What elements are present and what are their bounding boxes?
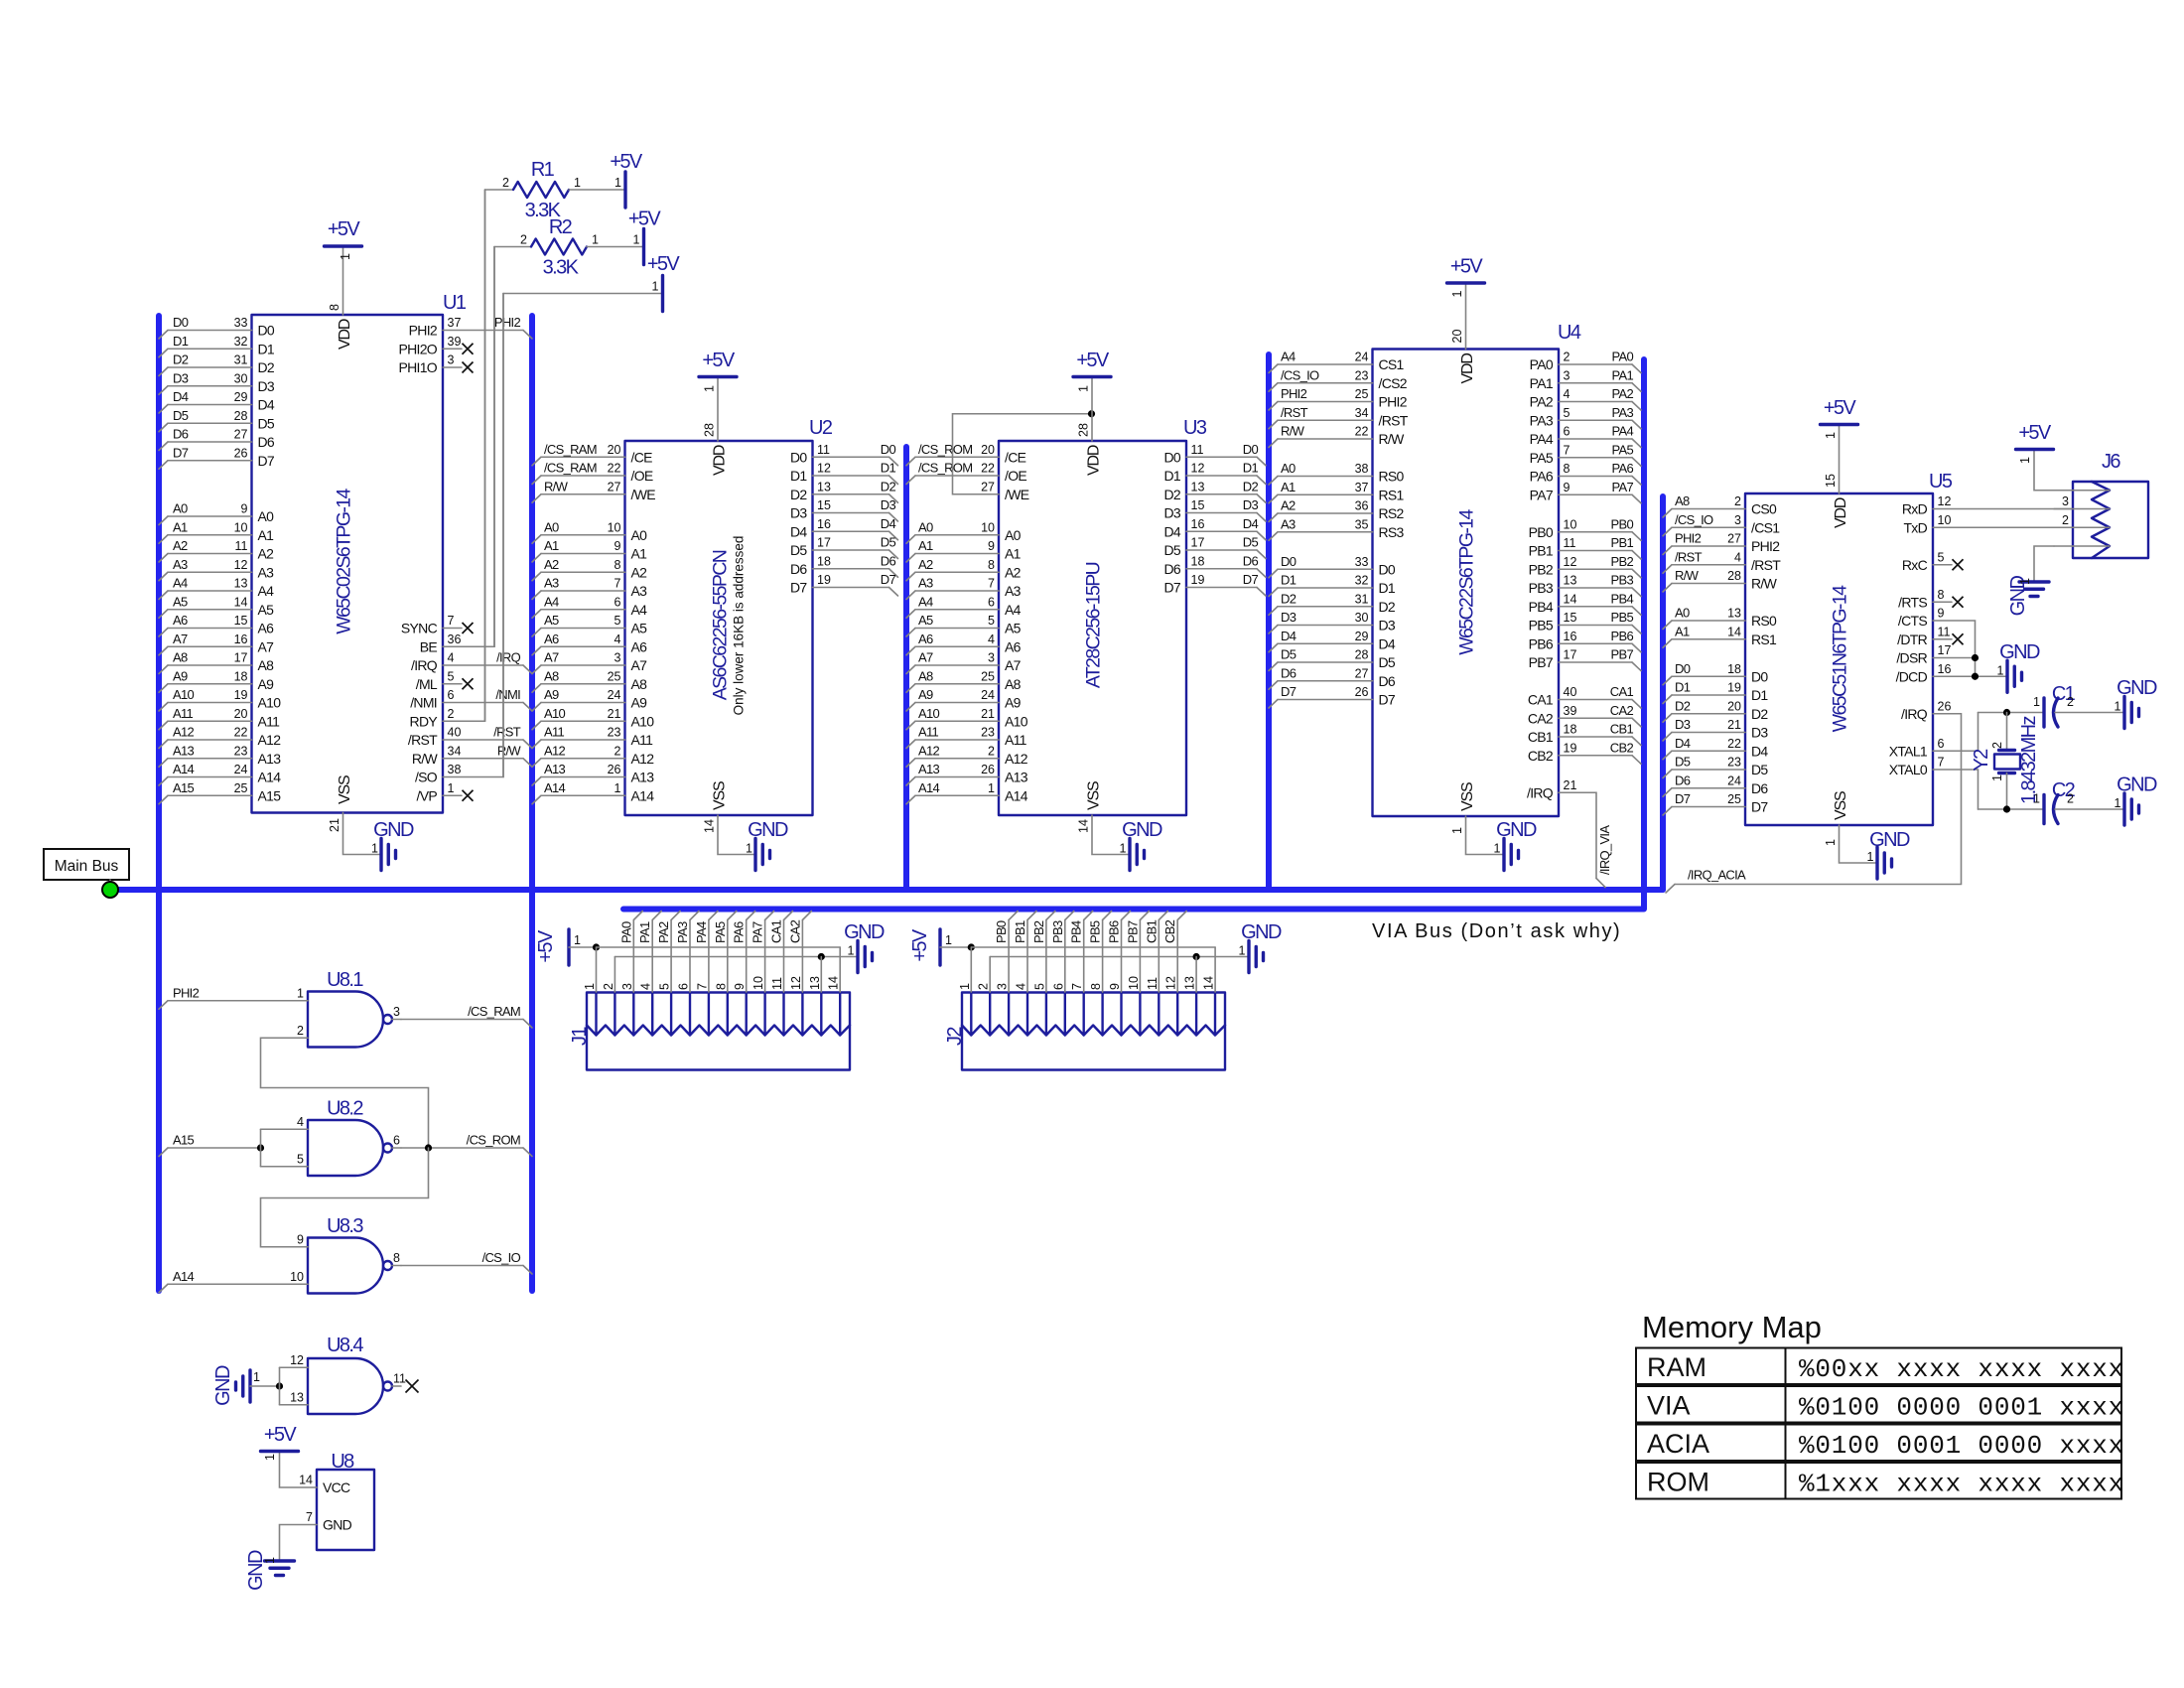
U3 pin 4 A6 wire from bus [906,632,1022,655]
wire J2 pin 5 PB2 from VIA bus [1031,912,1055,993]
U3 pin 16 D4 wire to bus [1164,516,1267,540]
svg-text:D3: D3 [790,505,807,521]
svg-text:A3: A3 [918,576,933,591]
svg-text:U8.3: U8.3 [327,1215,363,1237]
wire U8.1 pin 2 from /CS_ROM [261,1038,429,1148]
svg-text:24: 24 [608,688,621,702]
svg-text:15: 15 [1824,474,1838,488]
memory map row ROM [1636,1463,2124,1499]
svg-text:PB2: PB2 [1031,920,1046,943]
svg-text:A7: A7 [1005,657,1022,673]
svg-text:7: 7 [614,577,621,591]
svg-text:2: 2 [614,744,621,758]
svg-text:PB0: PB0 [994,920,1009,943]
U4 pin 16 PB6 wire to VIA bus [1529,629,1641,652]
svg-text:RAM: RAM [1647,1352,1706,1382]
svg-text:2: 2 [1734,494,1741,508]
svg-text:/CS_ROM: /CS_ROM [918,461,972,476]
svg-text:PB5: PB5 [1611,610,1634,625]
U4 pin 8 PA6 wire to VIA bus [1530,461,1641,485]
svg-text:16: 16 [817,517,831,531]
svg-text:1: 1 [583,983,597,990]
svg-text:+5V: +5V [2018,422,2052,444]
svg-text:U3: U3 [1183,417,1207,439]
svg-text:7: 7 [988,577,995,591]
wire J1 pin 8 PA5 from VIA bus [713,912,737,993]
svg-text:U4: U4 [1558,322,1581,344]
svg-text:A13: A13 [258,751,282,767]
svg-text:PHI2: PHI2 [409,323,438,339]
U5 pin 4 /RST wire from bus [1663,549,1781,573]
svg-text:17: 17 [1938,643,1952,657]
svg-text:2: 2 [2067,695,2074,709]
U1 pin 26 D7 wire from left bus [159,445,275,469]
wire J2 pin 7 PB4 from VIA bus [1069,912,1093,993]
U3 pin 22 /OE wire from bus [906,461,1026,485]
svg-text:PB0: PB0 [1529,524,1554,540]
svg-text:35: 35 [1355,517,1369,531]
svg-text:A15: A15 [173,780,195,795]
svg-text:11: 11 [1564,536,1576,550]
svg-text:/WE: /WE [1005,487,1029,502]
svg-text:VIA Bus (Don’t ask why): VIA Bus (Don’t ask why) [1372,920,1621,942]
U3 pin 27 /WE tied high to VDD [953,410,1096,502]
svg-text:19: 19 [817,573,831,587]
svg-text:D4: D4 [790,523,807,539]
svg-text:D3: D3 [1281,610,1297,625]
svg-text:D3: D3 [881,497,896,512]
svg-text:D0: D0 [790,449,807,465]
svg-text:/RST: /RST [1751,557,1781,573]
svg-text:A5: A5 [918,613,933,628]
svg-text:9: 9 [1938,607,1945,621]
svg-text:27: 27 [234,428,248,442]
svg-text:2: 2 [1990,742,2004,749]
svg-text:/CS1: /CS1 [1751,519,1780,535]
svg-text:1: 1 [1494,842,1501,856]
svg-text:D6: D6 [258,434,275,450]
svg-text:8: 8 [328,304,341,311]
U3 pin 23 A11 wire from bus [906,725,1027,749]
svg-text:/IRQ_ACIA: /IRQ_ACIA [1688,868,1746,883]
U2 pin 22 /OE wire from bus [532,461,653,485]
resistor R2 3.3K pull-up on BE [494,209,661,279]
svg-text:D6: D6 [1751,780,1768,796]
U1 pin 12 A3 wire from left bus [159,557,274,581]
svg-text:%0100 0000 0001 xxxx: %0100 0000 0001 xxxx [1799,1393,2124,1423]
svg-text:18: 18 [234,669,248,683]
svg-text:9: 9 [614,539,621,553]
svg-text:PA1: PA1 [1611,367,1633,382]
wire J1 pin 5 PA2 from VIA bus [656,912,680,993]
svg-text:GND: GND [1241,921,1282,943]
svg-text:PB4: PB4 [1069,920,1084,943]
svg-text:A14: A14 [1005,787,1028,803]
svg-text:PA3: PA3 [1611,405,1633,420]
svg-text:D2: D2 [1751,706,1768,722]
U1 pin 39 PHI2O [398,335,473,357]
+5V symbol tied to /SO [503,253,680,312]
svg-text:D5: D5 [881,535,896,550]
svg-text:A12: A12 [258,732,282,748]
svg-text:/NMI: /NMI [495,687,520,702]
svg-text:A4: A4 [631,602,648,618]
svg-text:CA2: CA2 [1528,710,1554,726]
U5 pin 8 /RTS no-connect [1898,588,1963,611]
memory map row ACIA [1636,1425,2124,1462]
svg-text:6: 6 [448,688,455,702]
svg-text:16: 16 [234,633,248,646]
svg-text:A8: A8 [544,668,559,683]
svg-text:A5: A5 [173,594,188,609]
svg-text:27: 27 [1355,666,1369,680]
svg-text:A0: A0 [173,501,188,516]
svg-text:D3: D3 [1675,717,1691,732]
svg-text:J1: J1 [569,1027,591,1046]
svg-text:17: 17 [1191,536,1205,550]
U2 pin 21 A10 wire from bus [532,706,654,730]
svg-text:A5: A5 [631,621,648,636]
svg-text:A14: A14 [544,780,566,795]
svg-text:20: 20 [981,443,995,457]
svg-text:D2: D2 [1281,591,1297,606]
svg-text:31: 31 [1355,592,1369,606]
svg-text:PHI2O: PHI2O [398,341,437,356]
svg-text:1: 1 [1867,850,1874,864]
svg-text:17: 17 [1564,648,1577,662]
svg-text:PHI2: PHI2 [494,315,521,330]
U4 pin 21 /IRQ wire to main bus, net /IRQ_VIA [1527,778,1612,888]
svg-text:RS3: RS3 [1379,524,1405,540]
svg-text:16: 16 [1938,662,1952,676]
svg-text:9: 9 [1564,481,1570,494]
svg-text:28: 28 [1077,423,1091,437]
svg-text:A9: A9 [258,676,275,692]
svg-text:23: 23 [981,726,995,740]
svg-text:RDY: RDY [410,713,439,729]
svg-text:11: 11 [235,539,248,553]
svg-text:12: 12 [817,462,831,476]
svg-text:/NMI: /NMI [410,695,437,711]
svg-text:GND: GND [844,921,885,943]
svg-text:+5V: +5V [610,151,643,173]
svg-text:22: 22 [981,462,995,476]
svg-text:9: 9 [297,1232,304,1246]
svg-text:/CS_ROM: /CS_ROM [918,442,972,457]
svg-text:21: 21 [608,707,621,721]
svg-text:BE: BE [420,638,438,654]
svg-text:7: 7 [1070,983,1084,990]
U5 pin 22 D4 wire from bus [1663,736,1768,760]
svg-text:A15: A15 [258,787,282,803]
svg-text:2: 2 [602,983,615,990]
svg-text:A12: A12 [918,743,940,758]
svg-text:22: 22 [1355,425,1369,439]
svg-text:26: 26 [608,763,621,776]
svg-text:13: 13 [234,577,248,591]
svg-text:18: 18 [1564,723,1577,737]
svg-text:A3: A3 [173,557,188,572]
svg-text:20: 20 [1450,330,1464,344]
svg-text:25: 25 [608,669,621,683]
wire J2 pin 10 PB7 from VIA bus [1125,912,1149,993]
U1 pin 24 A14 wire from left bus [159,762,281,785]
svg-text:27: 27 [981,480,995,493]
svg-text:7: 7 [306,1510,313,1524]
svg-text:1: 1 [746,842,752,856]
svg-text:6: 6 [1564,425,1570,439]
svg-text:26: 26 [981,763,995,776]
svg-text:4: 4 [448,651,455,665]
svg-text:8: 8 [988,558,995,572]
svg-text:A7: A7 [544,650,559,665]
U5 pin 27 PHI2 wire from bus [1663,531,1780,555]
wire PHI2 to U8.1 pin 1 [159,985,289,1009]
U1 pin 25 A15 wire from left bus [159,780,281,804]
svg-text:13: 13 [1727,607,1741,621]
svg-text:20: 20 [234,707,248,721]
svg-text:1: 1 [2033,695,2040,709]
svg-text:A8: A8 [1675,493,1690,508]
U8 VCC pin 14 wire and +5V symbol [261,1424,318,1487]
svg-text:13: 13 [1564,574,1577,588]
wire J1 pin 3 PA0 from VIA bus [618,912,642,993]
svg-text:14: 14 [703,819,717,833]
svg-text:CB2: CB2 [1162,919,1177,943]
U1 pin 30 D3 wire from left bus [159,370,275,394]
svg-text:A10: A10 [918,706,940,721]
svg-text:19: 19 [1727,681,1741,695]
svg-text:3: 3 [620,983,634,990]
svg-text:A1: A1 [258,527,275,543]
svg-text:PA5: PA5 [1530,450,1554,466]
svg-text:/DSR: /DSR [1896,650,1927,666]
svg-text:Main Bus: Main Bus [55,858,119,875]
U2 pin 17 D5 wire to bus [790,535,898,559]
svg-text:A2: A2 [544,557,559,572]
svg-text:10: 10 [234,520,248,534]
U5 pin 13 RS0 wire from bus [1663,606,1777,630]
svg-text:/RST: /RST [493,725,521,740]
U2 pin 2 A12 wire from bus [532,743,654,767]
svg-text:+5V: +5V [702,350,736,371]
U2 pin 25 A8 wire from bus [532,668,647,692]
svg-text:PA2: PA2 [1530,394,1554,410]
svg-text:D5: D5 [1675,755,1691,770]
U4 pin 30 D3 wire from bus [1269,610,1396,633]
svg-text:A2: A2 [631,564,648,580]
svg-text:D5: D5 [1164,542,1181,558]
svg-text:R1: R1 [531,159,555,181]
svg-text:9: 9 [733,983,747,990]
svg-text:D6: D6 [1281,665,1297,680]
svg-text:/RST: /RST [408,732,438,748]
svg-text:A6: A6 [258,621,275,636]
U5 pin 28 R/W wire from bus [1663,568,1778,592]
svg-text:A9: A9 [544,687,559,702]
svg-text:RS0: RS0 [1379,469,1405,485]
U1 pin 18 A9 wire from left bus [159,668,274,692]
svg-text:1: 1 [988,781,995,795]
svg-text:A12: A12 [173,725,195,740]
svg-text:7: 7 [448,614,455,628]
svg-text:2: 2 [1564,351,1570,364]
svg-text:GND: GND [1496,819,1537,841]
svg-text:/CE: /CE [1005,449,1026,465]
bus: main horizontal bus [109,887,1663,893]
wire J2 pin 4 PB1 from VIA bus [1013,912,1036,993]
U5 pin 14 RS1 wire from bus [1663,624,1777,647]
svg-text:PA1: PA1 [637,921,652,943]
GND symbol for J6 pin 1 [2007,546,2054,616]
svg-text:XTAL1: XTAL1 [1889,743,1928,759]
svg-text:11: 11 [1146,977,1160,990]
svg-text:1: 1 [2115,796,2121,810]
svg-text:/IRQ: /IRQ [1901,706,1928,722]
svg-text:D0: D0 [1243,442,1259,457]
svg-text:5: 5 [297,1152,304,1166]
svg-text:/CE: /CE [631,449,653,465]
svg-text:D6: D6 [1675,773,1691,787]
svg-text:R/W: R/W [497,743,522,758]
svg-text:3: 3 [614,651,621,665]
svg-text:14: 14 [1564,592,1577,606]
U4 pin 7 PA5 wire to VIA bus [1530,442,1641,466]
wire /CS_ROM feedback to U8.3 pin 9 [261,1148,429,1247]
svg-text:4: 4 [614,633,621,646]
svg-text:12: 12 [1164,976,1178,990]
svg-text:10: 10 [608,520,621,534]
U4 pin 19 CB2 wire to VIA bus [1528,740,1641,764]
svg-text:RxC: RxC [1902,557,1928,573]
svg-text:19: 19 [234,688,248,702]
svg-text:12: 12 [1191,462,1205,476]
svg-text:D1: D1 [258,341,275,356]
svg-text:A9: A9 [631,695,648,711]
svg-text:A9: A9 [173,668,188,683]
svg-text:36: 36 [1355,499,1369,513]
svg-text:3: 3 [988,651,995,665]
svg-text:R/W: R/W [1281,424,1305,439]
U1 pin 17 A8 wire from left bus [159,650,274,674]
svg-text:AT28C256-15PU: AT28C256-15PU [1083,562,1105,688]
svg-text:D1: D1 [881,461,896,476]
U3 pin 17 D5 wire to bus [1164,535,1267,559]
ground for C2 [2115,774,2157,826]
U4 pin 27 D6 wire from bus [1269,665,1396,689]
svg-text:A13: A13 [918,762,940,776]
svg-text:D2: D2 [1164,487,1181,502]
svg-text:1: 1 [2033,792,2040,806]
svg-text:/CS2: /CS2 [1379,375,1408,391]
+5V symbol for J1 pins 1/14 [535,929,840,992]
svg-text:39: 39 [1564,704,1577,718]
svg-text:R/W: R/W [412,751,439,767]
svg-text:/CS_RAM: /CS_RAM [544,442,597,457]
svg-text:11: 11 [1191,443,1204,457]
svg-text:Memory Map: Memory Map [1642,1310,1822,1344]
svg-text:A6: A6 [173,613,188,628]
svg-text:1: 1 [592,233,599,247]
U5 pin 18 D0 wire from bus [1663,661,1768,685]
svg-text:D2: D2 [1675,698,1691,713]
svg-text:14: 14 [1077,819,1091,833]
svg-text:26: 26 [234,446,248,460]
svg-text:PHI2: PHI2 [1751,538,1780,554]
svg-text:GND: GND [1869,829,1910,851]
svg-text:5: 5 [658,983,672,990]
svg-text:CA1: CA1 [769,919,784,943]
svg-text:U5: U5 [1929,471,1953,492]
U2 RAM AS6C62256-55PCN body [625,417,833,815]
svg-text:5: 5 [614,614,621,628]
svg-text:A12: A12 [1005,751,1028,767]
svg-text:A0: A0 [918,519,933,534]
svg-text:PB7: PB7 [1529,654,1554,670]
svg-text:D7: D7 [173,445,189,460]
svg-text:5: 5 [988,614,995,628]
svg-text:8: 8 [393,1251,400,1265]
svg-text:PB3: PB3 [1529,580,1554,596]
svg-text:PB4: PB4 [1611,591,1634,606]
svg-text:TxD: TxD [1903,519,1927,535]
svg-text:D5: D5 [1281,647,1297,662]
svg-text:/CS_RAM: /CS_RAM [544,461,597,476]
svg-text:A0: A0 [1281,461,1296,476]
U1 pin 33 D0 wire from left bus [159,315,275,339]
svg-text:/CS_IO: /CS_IO [1675,512,1713,527]
U1 pin 29 D4 wire from left bus [159,389,275,413]
U1 pin 10 A1 wire from left bus [159,519,274,543]
svg-text:22: 22 [1727,737,1741,751]
svg-text:4: 4 [297,1115,304,1129]
+5V symbol for J6 pin 4 [2016,422,2055,491]
svg-text:7: 7 [1938,756,1945,770]
svg-text:PA6: PA6 [1530,469,1554,485]
U3 pin 5 A5 wire from bus [906,613,1022,636]
svg-text:D6: D6 [1243,553,1259,568]
svg-text:A11: A11 [544,725,565,740]
svg-text:A11: A11 [918,725,939,740]
svg-text:31: 31 [234,353,248,367]
U2 pin 16 D4 wire to bus [790,516,898,540]
svg-text:2: 2 [448,707,455,721]
bus: vertical bus between U2 and U3 [903,447,909,890]
svg-text:A2: A2 [1281,498,1296,513]
U5 VDD pin 15 and +5V symbol [1821,397,1858,528]
svg-text:3.3K: 3.3K [543,257,580,279]
svg-text:A1: A1 [1675,624,1690,638]
svg-text:A12: A12 [631,751,655,767]
svg-text:PHI2: PHI2 [1281,386,1307,401]
svg-text:28: 28 [234,409,248,423]
svg-text:W65C51N6TPG-14: W65C51N6TPG-14 [1830,585,1851,732]
svg-text:ROM: ROM [1647,1468,1709,1497]
svg-text:1: 1 [1824,839,1838,846]
svg-text:37: 37 [448,316,462,330]
U5 pin 12 RxD wire to J6 pin 3 [1902,494,2073,517]
svg-text:A3: A3 [631,583,648,599]
svg-text:D0: D0 [1164,449,1181,465]
svg-text:23: 23 [234,744,248,758]
U1 VDD pin 8 and +5V symbol [325,218,362,350]
U5 pin 23 D5 wire from bus [1663,755,1768,778]
svg-text:10: 10 [751,976,765,990]
U4 pin 36 RS2 wire from bus [1269,498,1405,522]
U4 pin 5 PA3 wire to VIA bus [1530,405,1641,429]
svg-text:A14: A14 [173,762,195,776]
U8 power unit box [317,1451,374,1550]
